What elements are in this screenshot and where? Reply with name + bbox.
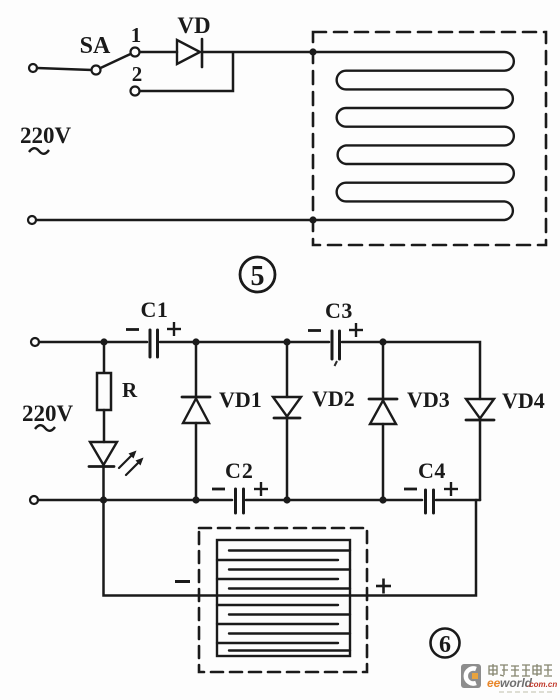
- node junction VD3 bottom: [379, 496, 386, 503]
- figure number 6: [431, 629, 460, 659]
- wire: [203, 51, 313, 54]
- label C3 plus: [349, 323, 363, 337]
- terminal upper-left of 220V source (fig5): [29, 64, 37, 72]
- switch SA contact 1: [131, 48, 140, 57]
- wire top rail right: [342, 342, 480, 399]
- node junction VD1 top: [192, 338, 199, 345]
- wire bottom rail right: [436, 499, 480, 502]
- capacitor C3: [332, 331, 340, 359]
- svg-text:VD: VD: [177, 13, 210, 38]
- switch SA contact 2: [131, 87, 140, 96]
- label ~ (fig6): [35, 425, 55, 431]
- resistor R: [97, 342, 111, 442]
- label ~ (fig5): [29, 148, 49, 154]
- LED emission arrows: [119, 451, 144, 476]
- label C1 minus: [126, 328, 139, 331]
- label C1 plus: [167, 322, 181, 336]
- label heater plus: [376, 579, 391, 594]
- switch SA pivot: [92, 66, 101, 75]
- svg-text:VD2: VD2: [312, 386, 355, 411]
- label C3 minus: [308, 329, 321, 332]
- svg-text:6: 6: [439, 632, 451, 658]
- switch SA blade: [101, 54, 131, 68]
- node junction LED branch bottom: [100, 496, 107, 503]
- capacitor C4: [426, 490, 434, 513]
- label heater minus: [175, 580, 190, 583]
- wire LED branch down to heater minus: [104, 500, 218, 596]
- node junction at heater output: [309, 216, 316, 223]
- LED VL: [89, 442, 117, 500]
- svg-text:1: 1: [131, 23, 142, 47]
- watermark slogan: [499, 691, 552, 693]
- svg-text:220V: 220V: [22, 401, 74, 426]
- diode VD3: [369, 342, 397, 500]
- node junction R branch top: [100, 338, 107, 345]
- svg-text:C3: C3: [325, 298, 353, 323]
- node junction VD2 bottom: [283, 496, 290, 503]
- label C2 plus: [254, 482, 268, 496]
- heating element E dashed enclosure (fig5): [313, 32, 546, 245]
- svg-text:C1: C1: [141, 297, 169, 322]
- svg-text:5: 5: [251, 261, 265, 292]
- watermark chinese title 电子工程世界: [489, 664, 552, 676]
- svg-text:220V: 220V: [20, 123, 72, 148]
- node junction VD1 bottom: [192, 496, 199, 503]
- wire: [140, 51, 177, 54]
- wire top rail left: [39, 341, 147, 344]
- wire bottom rail left: [38, 499, 232, 502]
- svg-text:2: 2: [132, 62, 143, 86]
- wire bottom rail middle: [246, 499, 422, 502]
- wire: [37, 68, 92, 70]
- wire bottom of fig5: [36, 219, 313, 222]
- wire from contact 2: [140, 53, 233, 91]
- diode VD1: [182, 342, 210, 500]
- watermark eeworld.com.cn: [487, 676, 557, 690]
- heating element dashed enclosure (fig6): [199, 528, 367, 672]
- wire top rail middle: [160, 341, 329, 344]
- node junction at heater input: [309, 48, 316, 55]
- terminal lower-left of 220V source (fig5): [28, 216, 36, 224]
- svg-text:.com.cn: .com.cn: [527, 680, 557, 689]
- svg-text:VD1: VD1: [219, 387, 262, 412]
- wire through heater plate: [217, 594, 350, 597]
- heating element plate (fig6): [217, 540, 350, 656]
- label C2 minus: [212, 488, 225, 491]
- svg-text:ee: ee: [487, 676, 501, 690]
- node junction VD3 top: [379, 338, 386, 345]
- stray scan mark under C3: [335, 361, 338, 366]
- watermark logo eeworld: [461, 664, 481, 688]
- diode VD4: [466, 399, 494, 500]
- heating element E resistance coil: [313, 52, 514, 220]
- svg-text:SA: SA: [80, 33, 111, 59]
- diode VD2: [273, 342, 301, 500]
- capacitor C1: [150, 330, 158, 357]
- svg-text:VD4: VD4: [502, 388, 545, 413]
- terminal upper-left of 220V source (fig6): [31, 338, 39, 346]
- capacitor C2: [236, 489, 244, 513]
- svg-text:C2: C2: [225, 458, 254, 483]
- wire heater plus up to bottom rail: [350, 500, 476, 596]
- diode VD: [177, 39, 202, 67]
- terminal lower-left of 220V source (fig6): [30, 496, 38, 504]
- figure number 5: [240, 257, 275, 292]
- node junction VD2 top: [283, 338, 290, 345]
- label C4 minus: [404, 488, 417, 491]
- svg-text:VD3: VD3: [407, 387, 450, 412]
- svg-text:R: R: [122, 378, 138, 402]
- svg-text:C4: C4: [418, 458, 446, 483]
- label C4 plus: [444, 482, 458, 496]
